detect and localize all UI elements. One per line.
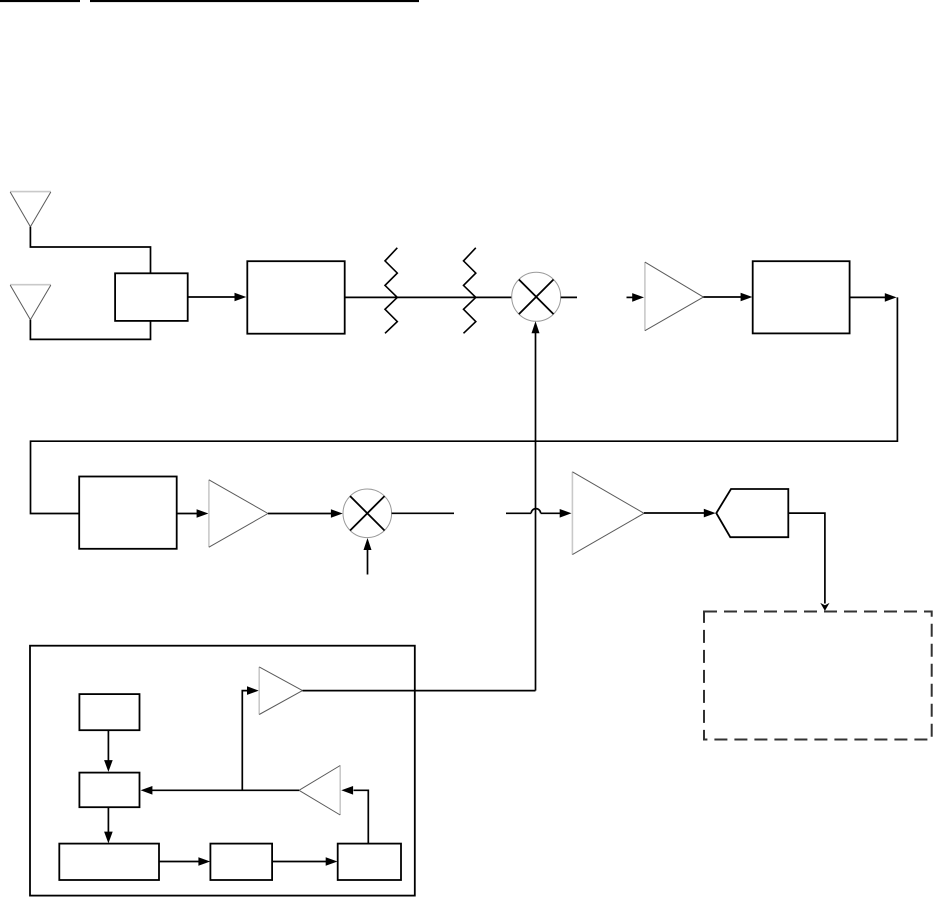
box: VCO <box>59 844 159 880</box>
wire amp A5 to handset with arrow <box>644 509 716 518</box>
wire amp A2 to IF filter with arrow <box>703 293 752 302</box>
dashed box: external audio unit <box>704 612 932 740</box>
tag: handset connector <box>716 489 788 537</box>
wire mixer A1 output stub <box>561 296 577 298</box>
wire to amp A3 with arrow <box>177 509 209 518</box>
wire IF filter output with arrow to corner <box>850 293 897 302</box>
box: preselector <box>247 261 344 334</box>
wire ANT1 lead to coupler <box>30 227 150 273</box>
wire with hop over LO riser, arrow into amp A5 <box>506 509 572 518</box>
box: divider <box>210 844 272 880</box>
box: second IF stage <box>79 477 177 549</box>
antenna ANT2 <box>10 285 51 320</box>
op-amp A6: buffer amplifier <box>259 667 302 715</box>
box: prescaler <box>338 844 401 880</box>
antenna ANT1 <box>10 192 51 227</box>
wire LO injection arrow into mixer A1 <box>532 321 540 690</box>
wire mixer A4 output stub <box>392 512 454 514</box>
wire arrow divider to prescaler <box>272 857 337 866</box>
title underline segment 1 <box>0 0 80 2</box>
wire arrow phase detector to VCO <box>104 807 113 843</box>
box: frequency synthesizer enclosure <box>30 646 415 896</box>
wire handset to audio output, arrow down <box>788 513 829 611</box>
wire arrow into IF amplifier <box>627 293 645 302</box>
op-amp A2: IF amplifier <box>645 262 704 331</box>
wire feedback run right-down-left-down <box>31 297 898 513</box>
wire feedback amp to phase detector, arrow left <box>141 786 299 795</box>
wire ANT2 lead to coupler <box>30 320 150 340</box>
box: reference oscillator <box>79 694 139 730</box>
op-amp A5: audio amplifier <box>572 472 644 555</box>
wire preselector to mixer A1 <box>345 296 512 298</box>
title underline segment 2 <box>90 0 419 2</box>
wire arrow oscillator to phase detector <box>104 730 113 772</box>
wire riser to buffer amp input with arrow <box>242 686 258 790</box>
wire coupler to preselector with arrow <box>188 293 247 302</box>
wire prescaler up to feedback amp, arrow left <box>341 786 368 844</box>
wire arrow VCO to divider <box>159 857 210 866</box>
box: phase detector <box>79 773 139 808</box>
zigzag break symbol 1 <box>385 248 397 333</box>
wire amp A3 to mixer A4 with arrow <box>268 509 343 518</box>
wire LO arrow into mixer A4 <box>364 538 372 575</box>
wire synthesizer amp output to LO riser <box>303 690 536 692</box>
op-amp A3 <box>209 480 268 547</box>
op-amp A7: feedback amplifier (points left) <box>299 766 340 816</box>
mixer A1 <box>512 272 561 321</box>
box: antenna coupler <box>115 273 188 321</box>
box: IF filter <box>753 261 850 333</box>
mixer A4 <box>343 489 392 538</box>
zigzag break symbol 2 <box>464 248 476 333</box>
